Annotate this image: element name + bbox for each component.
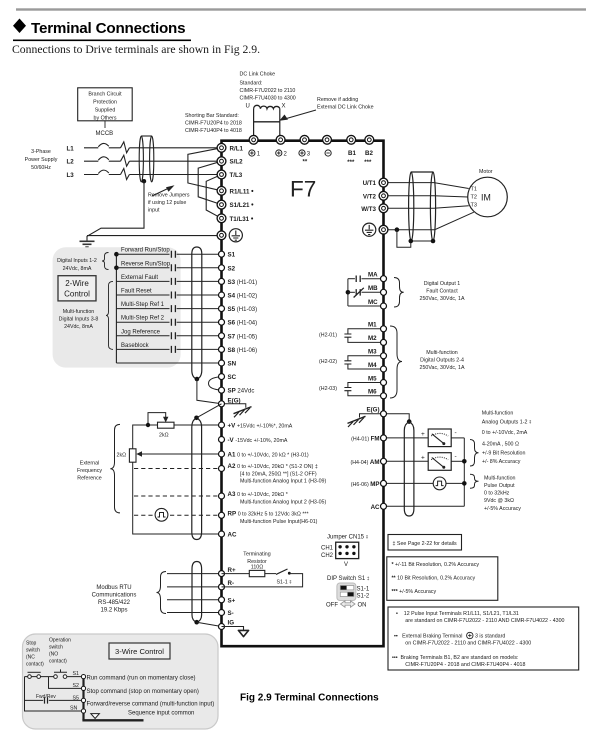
svg-text:Terminal Connections: Terminal Connections xyxy=(31,20,185,37)
svg-text:Fwd/Rev: Fwd/Rev xyxy=(36,694,56,700)
svg-text:S1-2: S1-2 xyxy=(357,594,370,600)
operation switch NO xyxy=(49,669,84,678)
svg-text:Control: Control xyxy=(64,290,90,299)
wire S+ xyxy=(167,599,222,601)
terminal S3 xyxy=(219,278,225,284)
wire R+ xyxy=(167,573,222,575)
dashed wire RP xyxy=(134,514,222,516)
svg-text:2kΩ: 2kΩ xyxy=(117,453,127,459)
switch Jog Reference xyxy=(116,329,221,339)
junction shield-to-ground xyxy=(142,179,146,183)
svg-text:Digital Output 1: Digital Output 1 xyxy=(424,281,461,287)
PE right earth mark in circle xyxy=(363,223,376,236)
DIP switch S1 graphic xyxy=(337,583,356,601)
label stop switch xyxy=(26,641,44,668)
terminal -V xyxy=(219,437,225,443)
junction shield drain xyxy=(195,377,200,382)
label multi-function digital outputs 2-4 xyxy=(420,350,465,371)
label terminal minus xyxy=(325,150,331,156)
svg-text:E(G): E(G) xyxy=(366,407,379,414)
svg-text:switch: switch xyxy=(26,648,40,654)
svg-text:SP 24Vdc: SP 24Vdc xyxy=(228,388,255,395)
terminal R1/L11 xyxy=(217,186,226,195)
svg-text:S1-1: S1-1 xyxy=(357,587,370,593)
branch circuit protection box xyxy=(78,88,133,121)
terminal MP xyxy=(381,480,387,486)
junction bus AM xyxy=(462,459,467,464)
svg-text:IG: IG xyxy=(228,620,235,627)
svg-text:(H6-06) MP: (H6-06) MP xyxy=(351,481,380,488)
svg-text:switch: switch xyxy=(49,645,63,651)
photocoupler output M3-M4 xyxy=(348,356,384,369)
svg-text:S-: S- xyxy=(228,610,234,617)
drive enclosure F7 xyxy=(222,141,384,647)
wire U/T1 to motor xyxy=(384,183,469,189)
junction ground terminal wire xyxy=(395,227,400,232)
terminal FM xyxy=(381,435,387,441)
svg-text:DIP Switch S1 ‡: DIP Switch S1 ‡ xyxy=(327,576,370,582)
svg-text:CIMR-F7U20P4 to 2018: CIMR-F7U20P4 to 2018 xyxy=(185,121,242,127)
svg-text:Multi-function: Multi-function xyxy=(63,309,95,315)
relay output MB (NC contact) xyxy=(348,291,355,293)
svg-text:B2: B2 xyxy=(365,150,373,157)
svg-text:S1-1 ‡: S1-1 ‡ xyxy=(277,580,293,586)
chassis ground symbol IG xyxy=(238,630,248,636)
svg-text:CIMR-F7U20P4 - 2018 and CIMR-F: CIMR-F7U20P4 - 2018 and CIMR-F7U40P4 - 4… xyxy=(405,662,525,668)
potentiometer 2k (supply) xyxy=(158,422,175,428)
wire R+ to resistor xyxy=(222,573,250,575)
svg-text:Multi-function: Multi-function xyxy=(426,350,458,356)
svg-text:Remove Jumpers: Remove Jumpers xyxy=(148,193,190,199)
svg-text:MB: MB xyxy=(368,285,378,292)
PE earth mark in circle xyxy=(229,229,242,242)
svg-text:3-Wire Control: 3-Wire Control xyxy=(115,647,164,656)
svg-text:* +/-11 Bit Resolution, 0.2: * +/-11 Bit Resolution, 0.2% Accuracy xyxy=(392,562,480,568)
motor M1 circle xyxy=(468,177,508,217)
svg-text:Communications: Communications xyxy=(92,593,137,599)
3-Wire Control label box xyxy=(109,643,170,659)
switch Baseblock xyxy=(116,343,221,353)
junction S1 bus xyxy=(114,252,119,257)
svg-text:CH1: CH1 xyxy=(321,546,334,552)
analog meter 2 xyxy=(428,453,451,471)
svg-text:3 is standard: 3 is standard xyxy=(475,634,505,640)
svg-text:input: input xyxy=(148,208,160,214)
svg-text:Fault Reset: Fault Reset xyxy=(121,289,152,295)
terminal +V xyxy=(219,422,225,428)
svg-text:2-Wire: 2-Wire xyxy=(65,279,89,288)
relay output MC wire xyxy=(348,305,384,307)
note box: model availability xyxy=(388,607,579,670)
svg-text:SN: SN xyxy=(228,361,237,368)
svg-text:Forward Run/Stop: Forward Run/Stop xyxy=(121,248,170,254)
svg-text:CIMR-F7U40P4 to 4018: CIMR-F7U40P4 to 4018 xyxy=(185,128,242,134)
svg-text:Motor: Motor xyxy=(479,169,493,175)
wire pot bottom to AC xyxy=(133,462,222,534)
wire IG to chassis ground xyxy=(222,627,244,631)
terminal M1 xyxy=(381,326,387,332)
svg-text:•• External Braking Terminal: •• External Braking Terminal xyxy=(394,634,462,640)
relay bus MA-MC xyxy=(347,279,349,306)
external frequency reference brace xyxy=(110,424,120,513)
svg-text:Multi-Step Ref 1: Multi-Step Ref 1 xyxy=(121,302,165,308)
switch External Fault xyxy=(116,275,221,285)
svg-text:9Vdc @ 3kΩ: 9Vdc @ 3kΩ xyxy=(484,498,514,504)
svg-text:M1: M1 xyxy=(368,322,377,329)
svg-text:S2: S2 xyxy=(228,265,236,272)
svg-text:E(G): E(G) xyxy=(228,398,241,405)
svg-text:110Ω: 110Ω xyxy=(251,564,263,570)
svg-text:A2 0 to +/-10Vdc, 20kΩ * (S1-: A2 0 to +/-10Vdc, 20kΩ * (S1-2 ON) ‡ xyxy=(228,463,318,470)
switch Multi-Step Ref 2 xyxy=(116,316,221,326)
junction analog-out shield drain xyxy=(407,419,412,424)
svg-text:M6: M6 xyxy=(368,389,377,396)
svg-text:24Vdc, 8mA: 24Vdc, 8mA xyxy=(63,266,92,272)
svg-text:MA: MA xyxy=(368,272,378,279)
svg-text:MCCB: MCCB xyxy=(96,131,114,137)
brace analog outputs xyxy=(470,440,479,467)
modbus brace xyxy=(157,572,167,614)
terminal S2 (3-wire) xyxy=(81,686,85,690)
junction analog shield drain xyxy=(194,416,199,421)
wire S- xyxy=(167,612,222,614)
svg-text:S5: S5 xyxy=(73,695,80,701)
terminating resistor circuit: R+ to resistor to switch S1-1 to R- xyxy=(243,552,270,571)
svg-text:1: 1 xyxy=(257,152,261,158)
wire E(G) to earth (left) xyxy=(222,404,246,408)
svg-text:M4: M4 xyxy=(368,362,377,369)
svg-text:Branch Circuit: Branch Circuit xyxy=(88,92,122,98)
wire switch to R- xyxy=(222,574,303,587)
svg-text:Shorting Bar Standard:: Shorting Bar Standard: xyxy=(185,113,239,119)
svg-text:3-Phase: 3-Phase xyxy=(31,149,51,155)
terminal R/L1 xyxy=(217,143,226,152)
switch Forward Run/Stop xyxy=(116,248,221,258)
svg-text:Standard:: Standard: xyxy=(240,81,263,87)
wire L3 phase xyxy=(84,169,222,180)
svg-text:***: *** xyxy=(347,160,355,166)
svg-text:+V +15Vdc +/-10%*, 20mA: +V +15Vdc +/-10%*, 20mA xyxy=(228,423,293,430)
svg-text:by Others: by Others xyxy=(94,116,117,122)
svg-text:Protection: Protection xyxy=(93,100,117,106)
svg-text:S+: S+ xyxy=(228,597,236,604)
12-pulse jumper S/L2 to S1/L21 xyxy=(198,161,221,204)
terminal +1 (DC bus) xyxy=(249,135,258,144)
svg-text:S7 (H1-05): S7 (H1-05) xyxy=(228,333,258,340)
junction bus MP xyxy=(462,481,467,486)
svg-text:External DC Link Choke: External DC Link Choke xyxy=(317,105,374,111)
svg-text:R/L1: R/L1 xyxy=(230,145,244,152)
3-wire control gray panel xyxy=(23,634,219,729)
digital input cable shield xyxy=(192,247,202,379)
terminal S/L2 xyxy=(217,157,226,166)
svg-text:S3 (H1-01): S3 (H1-01) xyxy=(228,279,258,286)
wire L2 phase xyxy=(84,155,222,166)
terminal U/T1 xyxy=(379,178,388,187)
junction modbus shield drain xyxy=(194,620,199,625)
wire SN common xyxy=(116,362,221,364)
label terminal +1 xyxy=(249,150,261,158)
terminal IG xyxy=(219,624,225,630)
svg-text:S2: S2 xyxy=(73,683,80,689)
svg-text:Terminating: Terminating xyxy=(243,552,270,558)
jumper CN15 block xyxy=(336,542,359,558)
terminal SN xyxy=(219,360,225,366)
label digital inputs 1-2 xyxy=(57,258,97,272)
wire analog shield drain to E(G) xyxy=(197,404,222,418)
terminal S5 (3-wire) xyxy=(81,698,85,702)
svg-text:-: - xyxy=(455,430,457,437)
svg-text:Remove if adding: Remove if adding xyxy=(317,97,358,103)
modbus cable shield xyxy=(192,562,202,623)
svg-text:RP 0 to 32kHz 5 to 12Vdc 3k: RP 0 to 32kHz 5 to 12Vdc 3kΩ *** xyxy=(228,511,309,518)
terminal MA xyxy=(381,276,387,282)
svg-text:Run command (run on momentary: Run command (run on momentary close) xyxy=(87,676,196,682)
Fwd/Rev switch xyxy=(25,697,84,703)
svg-text:Multi-function: Multi-function xyxy=(484,476,516,482)
svg-text:M3: M3 xyxy=(368,349,377,356)
svg-text:R1/L11 •: R1/L11 • xyxy=(230,188,255,195)
svg-text:+: + xyxy=(421,431,425,438)
brace pulse output xyxy=(470,474,479,488)
wire L1 phase xyxy=(84,142,222,153)
svg-text:L2: L2 xyxy=(67,159,75,166)
pulse source symbol on RP xyxy=(155,508,168,521)
svg-text:Baseblock: Baseblock xyxy=(121,343,150,349)
terminal MB xyxy=(381,289,387,295)
svg-text:Reference: Reference xyxy=(77,476,101,482)
earth ground symbol (supply) xyxy=(80,241,95,247)
svg-text:(H2-01): (H2-01) xyxy=(319,333,337,339)
label multi-function digital inputs 3-8 xyxy=(59,309,99,330)
svg-text:+: + xyxy=(421,455,425,462)
svg-text:T2: T2 xyxy=(471,195,478,201)
svg-text:S5 (H1-03): S5 (H1-03) xyxy=(228,306,258,313)
resistor 110 ohm xyxy=(249,570,264,576)
terminal MC xyxy=(381,303,387,309)
photocoupler output M5-M6 xyxy=(348,383,384,396)
wire modbus shield to IG xyxy=(197,622,222,626)
svg-text:Digital Outputs 2-4: Digital Outputs 2-4 xyxy=(420,358,464,364)
svg-text:T1: T1 xyxy=(471,187,478,193)
svg-text:[4 to 20mA, 250Ω **] (S1-2 OF: [4 to 20mA, 250Ω **] (S1-2 OFF) xyxy=(240,471,317,477)
shorting bar between terminal 1 and 2 xyxy=(254,121,280,123)
svg-text:if using 12 pulse: if using 12 pulse xyxy=(148,200,186,206)
brace inputs 3-8 xyxy=(106,281,113,349)
terminal +2 xyxy=(276,135,285,144)
svg-text:Fault Contact: Fault Contact xyxy=(426,289,458,295)
svg-text:‡ See Page 2-22 for details: ‡ See Page 2-22 for details xyxy=(393,541,458,547)
wire FM to meter 1 xyxy=(384,437,429,439)
wire meter 2 to bus xyxy=(451,460,464,462)
svg-text:AC: AC xyxy=(228,532,237,539)
svg-text:250Vac, 30Vdc, 1A: 250Vac, 30Vdc, 1A xyxy=(420,296,465,302)
jumper wire SC to SP xyxy=(209,377,222,391)
terminal M5 xyxy=(381,380,387,386)
wire choke leg left xyxy=(253,109,255,135)
terminal RP xyxy=(219,512,225,518)
svg-text:Jumper CN15 ‡: Jumper CN15 ‡ xyxy=(327,535,369,541)
svg-text:A3 0 to +/-10Vdc, 20kΩ *: A3 0 to +/-10Vdc, 20kΩ * xyxy=(228,491,288,498)
svg-text:Multi-function Analog Input 2: Multi-function Analog Input 2 (H3-05) xyxy=(240,499,327,505)
wire R- xyxy=(167,586,222,588)
terminal S1 xyxy=(219,251,225,257)
junction shield bottom left xyxy=(409,239,414,244)
svg-text:F7: F7 xyxy=(290,177,316,202)
photocoupler output M1-M2 xyxy=(348,329,384,343)
frequency setting potentiometer 2k vertical xyxy=(129,449,136,462)
wire meter 1 to bus xyxy=(451,437,464,439)
DC link choke L1 (coil) xyxy=(254,105,280,108)
svg-text:Power Supply: Power Supply xyxy=(25,157,58,163)
svg-text:CIMR-F7U4030 to 4300: CIMR-F7U4030 to 4300 xyxy=(240,96,296,102)
terminal E(G) right xyxy=(381,411,387,417)
svg-text:Forward/reverse command (multi: Forward/reverse command (multi-function … xyxy=(87,701,215,707)
switch S1-1 blade xyxy=(276,569,288,574)
labels analog output specs xyxy=(482,442,525,466)
svg-text:Connections to Drive terminals: Connections to Drive terminals are shown… xyxy=(12,43,260,56)
left rail 3-wire xyxy=(25,677,84,711)
terminal S1/L21 xyxy=(217,200,226,209)
svg-text:B1: B1 xyxy=(348,150,356,157)
svg-text:••• Braking Terminals B1, B2: ••• Braking Terminals B1, B2 are standar… xyxy=(392,655,519,661)
wire S2 tap xyxy=(49,677,84,689)
terminal A1 xyxy=(219,451,225,457)
junction S2 bus xyxy=(114,266,119,271)
wire pulse monitor to bus xyxy=(446,482,464,484)
terminal A3 xyxy=(219,493,225,499)
svg-text:Reverse Run/Stop: Reverse Run/Stop xyxy=(121,261,171,267)
svg-text:Supplied: Supplied xyxy=(95,108,116,114)
svg-text:• 12 Pulse Input Terminals: • 12 Pulse Input Terminals R1/L11, S1/L2… xyxy=(396,611,519,617)
svg-text:2: 2 xyxy=(284,152,288,158)
svg-text:Jog Reference: Jog Reference xyxy=(121,329,161,335)
switch Reverse Run/Stop xyxy=(116,261,221,271)
brace inputs 1-2 xyxy=(102,253,109,270)
terminal S2 xyxy=(219,265,225,271)
pulse monitor symbol xyxy=(433,477,446,490)
svg-text:M5: M5 xyxy=(368,375,377,382)
terminal S+ xyxy=(219,597,225,603)
wire choke leg right xyxy=(279,109,281,135)
junction wiper to +V wire xyxy=(146,423,150,427)
circle plus 3 mark in note 2 xyxy=(467,632,506,639)
dashed wire A3 xyxy=(134,495,222,497)
svg-text:ON: ON xyxy=(358,603,367,609)
analog meter 1 (frequency) xyxy=(428,429,451,447)
svg-text:19.2 Kbps: 19.2 Kbps xyxy=(100,608,127,614)
leader from box to MCCB xyxy=(104,121,106,128)
svg-text:External: External xyxy=(80,461,99,467)
label modbus xyxy=(92,585,137,614)
svg-text:MC: MC xyxy=(368,299,378,306)
wire resistor to switch xyxy=(265,573,276,575)
svg-text:(H4-01) FM: (H4-01) FM xyxy=(351,435,379,442)
terminal T/L3 xyxy=(217,170,226,179)
terminal B1 xyxy=(347,135,356,144)
wire drive PE terminal to earth xyxy=(87,235,222,237)
note Shorting Bar standard xyxy=(185,113,242,134)
svg-text:L1: L1 xyxy=(67,145,75,152)
svg-text:S1: S1 xyxy=(73,671,80,677)
label multi-function analog outputs xyxy=(482,411,532,437)
svg-text:(H2-03): (H2-03) xyxy=(319,386,337,392)
svg-text:DC Link Choke: DC Link Choke xyxy=(240,72,276,78)
terminal S1 (3-wire) xyxy=(81,675,85,679)
brace digital output 1 xyxy=(394,278,404,308)
motor cable shield xyxy=(409,172,436,241)
terminal B2 xyxy=(365,135,374,144)
brace multi-function digital outputs xyxy=(390,326,402,398)
digital input common bus xyxy=(115,254,117,363)
label operation switch xyxy=(49,638,71,665)
svg-text:0 to +/-10Vdc, 2mA: 0 to +/-10Vdc, 2mA xyxy=(482,430,528,436)
wire AM to meter 2 xyxy=(384,460,429,462)
terminal SN (3-wire) xyxy=(81,709,85,713)
label external frequency reference xyxy=(77,461,102,482)
stop switch NC xyxy=(25,672,49,678)
svg-text:2kΩ: 2kΩ xyxy=(159,433,169,439)
svg-text:***: *** xyxy=(364,160,372,166)
svg-text:CH2: CH2 xyxy=(321,553,334,559)
3-wire bus xyxy=(82,677,84,720)
note DC Link Choke standard xyxy=(240,72,296,102)
svg-text:-V -15Vdc +/-10%, 20mA: -V -15Vdc +/-10%, 20mA xyxy=(228,437,288,444)
svg-text:SC: SC xyxy=(228,374,237,381)
svg-text:-: - xyxy=(455,453,457,460)
svg-text:contact): contact) xyxy=(26,662,44,668)
terminal PE left xyxy=(217,231,226,240)
svg-text:4-20mA , 500 Ω: 4-20mA , 500 Ω xyxy=(482,442,519,448)
svg-text:Stop command (stop on momentar: Stop command (stop on momentary open) xyxy=(87,689,199,695)
svg-text:Fig 2.9 Terminal Connections: Fig 2.9 Terminal Connections xyxy=(240,693,379,704)
svg-text:W/T3: W/T3 xyxy=(361,206,376,213)
dashed wire A2 xyxy=(134,468,222,470)
terminal AC right xyxy=(381,503,387,509)
terminal M3 xyxy=(381,353,387,359)
svg-text:S4 (H1-02): S4 (H1-02) xyxy=(228,293,258,300)
svg-text:Sequence input common: Sequence input common xyxy=(128,711,194,717)
svg-text:24Vdc, 8mA: 24Vdc, 8mA xyxy=(64,324,93,330)
wire W/T3 to motor xyxy=(384,206,469,209)
svg-text:are standard on CIMR-F7U2022 -: are standard on CIMR-F7U2022 - 2110 AND … xyxy=(405,618,564,624)
terminal A2 xyxy=(219,466,225,472)
svg-text:+/-5% Accuracy: +/-5% Accuracy xyxy=(484,506,521,512)
svg-text:X: X xyxy=(282,104,286,110)
terminal R- xyxy=(219,584,225,590)
svg-text:Multi-function Pulse Input(H6-: Multi-function Pulse Input(H6-01) xyxy=(240,519,318,525)
terminal M2 xyxy=(381,339,387,345)
heading xyxy=(13,19,191,42)
terminal S8 xyxy=(219,346,225,352)
terminal V/T2 xyxy=(379,191,388,200)
svg-text:R-: R- xyxy=(228,580,235,587)
svg-text:S/L2: S/L2 xyxy=(230,159,244,166)
12-pulse jumper T/L3 to T1/L31 xyxy=(206,175,221,219)
svg-text:U: U xyxy=(246,104,250,110)
svg-text:*** +/-5% Accuracy: *** +/-5% Accuracy xyxy=(392,589,437,595)
terminal AM xyxy=(381,458,387,464)
svg-text:**: ** xyxy=(303,160,308,166)
svg-text:S1: S1 xyxy=(228,252,236,259)
terminal M4 xyxy=(381,366,387,372)
svg-text:(H2-02): (H2-02) xyxy=(319,359,337,365)
label terminal +3 xyxy=(299,150,311,158)
analog cable shield left xyxy=(192,418,202,540)
shield drain wire to ground xyxy=(397,230,411,248)
svg-text:(NC: (NC xyxy=(26,655,35,661)
analog output cable shield xyxy=(404,422,414,516)
